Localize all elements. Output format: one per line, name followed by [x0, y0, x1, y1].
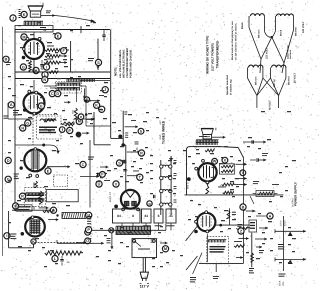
svg-text:in cabinet top: in cabinet top — [230, 79, 233, 95]
svg-text:Blk-Red: Blk-Red — [288, 76, 291, 85]
svg-text:on 110 volt lines. Wires as s: on 110 volt lines. Wires as shown. — [235, 23, 238, 60]
wire y75 bus — [15, 71, 110, 73]
resistor V7 r1 — [234, 245, 244, 248]
capacitor center — [123, 169, 126, 171]
wire y145 curve — [49, 145, 58, 152]
dashed y243 — [34, 242, 79, 244]
svg-text:.05: .05 — [66, 261, 70, 264]
osc ladder rung 2 — [163, 177, 172, 178]
arrow right y255 — [275, 258, 306, 260]
wire left stub v2 — [7, 103, 9, 119]
osc ladder rung 4 — [163, 203, 172, 204]
callout H — [33, 67, 39, 73]
callout col1 — [102, 87, 108, 93]
wire V1 top — [33, 32, 35, 39]
wire y262 stub — [215, 264, 217, 272]
tube V7 pin left — [195, 220, 198, 223]
wire arrow y152 — [127, 151, 140, 153]
wire V6 arrow1 — [236, 163, 247, 165]
arrow right y231 — [275, 230, 306, 232]
svg-text:Y: Y — [242, 171, 245, 175]
svg-text:J: J — [12, 16, 14, 20]
transformer TD legs — [270, 68, 272, 79]
capacitor C1 — [40, 64, 43, 66]
resistor R3 — [44, 61, 60, 64]
IF box text — [39, 127, 57, 129]
IFT lead bottom — [33, 206, 35, 209]
label left small — [6, 61, 11, 64]
wire V7 right — [216, 224, 250, 226]
node dot V3 — [20, 166, 23, 169]
wire y145 — [15, 144, 49, 146]
wire top bus right stub — [80, 26, 82, 33]
svg-text:240 VOLT: 240 VOLT — [302, 21, 305, 33]
callout L — [42, 72, 48, 78]
transformer TA coil — [251, 14, 265, 16]
plug — [140, 272, 148, 278]
svg-text:42: 42 — [43, 28, 47, 32]
label primary — [138, 249, 150, 250]
callout C2a — [49, 91, 55, 97]
svg-text:AVC: AVC — [72, 109, 75, 114]
svg-text:N: N — [43, 78, 46, 82]
svg-text:6K6 G: 6K6 G — [186, 182, 189, 189]
svg-text:Blk-Yel: Blk-Yel — [273, 79, 276, 87]
label stub — [213, 275, 219, 278]
label left v2 — [13, 110, 19, 111]
wire arrow down x84 — [83, 88, 85, 99]
wire V2 top — [33, 80, 35, 91]
callout bleeder — [52, 256, 58, 262]
node dot y145 — [42, 144, 45, 147]
wire right of bus — [165, 224, 167, 231]
svg-text:S: S — [118, 161, 121, 165]
svg-text:O: O — [86, 239, 89, 243]
svg-text:6SQ7: 6SQ7 — [284, 219, 287, 226]
wire y262 — [199, 263, 244, 265]
label near c184 — [104, 179, 110, 182]
wire arc to grid — [55, 16, 93, 22]
wire T2 right — [219, 146, 239, 149]
svg-text:tied back: tied back — [289, 49, 292, 59]
svg-text:C: C — [51, 92, 54, 96]
osc ladder rung 3 — [163, 190, 172, 191]
arrow FR1 — [259, 227, 268, 229]
wire T2 left — [188, 146, 196, 148]
svg-text:K: K — [95, 104, 98, 108]
callout mid y130 — [67, 127, 73, 133]
IF2 box text — [93, 112, 95, 145]
IFT comb 2 — [26, 198, 45, 200]
wire V6 arrow2 — [234, 184, 247, 186]
callout M — [21, 34, 27, 40]
svg-text:D: D — [7, 159, 10, 163]
dashed h v2 — [33, 114, 58, 116]
svg-text:Blk-Grn: Blk-Grn — [258, 29, 261, 38]
wire arrow y176 — [127, 175, 139, 177]
choke comb on bus — [67, 78, 95, 80]
label speaker vtext — [19, 9, 21, 10]
label mid — [131, 119, 136, 122]
svg-text:R: R — [21, 195, 24, 199]
node dot V7 — [194, 230, 198, 234]
wire x90 vertical — [89, 140, 91, 208]
tube V4 pin bottom — [31, 239, 36, 244]
svg-text:TRANSFORMERS: TRANSFORMERS — [216, 41, 220, 68]
coil L2 primary — [57, 82, 80, 84]
tube V6 pin top — [202, 159, 205, 162]
osc ladder rung 1 — [163, 165, 172, 166]
wire x252 vertical — [251, 233, 253, 267]
callout col3 — [99, 106, 105, 112]
value labels smudges — [47, 42, 52, 43]
callout 24 — [61, 48, 67, 54]
power transformer secondary comb — [116, 225, 151, 227]
dotted x78 — [90, 224, 92, 243]
svg-text:E: E — [57, 34, 60, 38]
callout mid2 — [125, 126, 139, 128]
callout V7a — [238, 228, 244, 234]
wire mid stub — [122, 111, 124, 145]
bits bottom — [250, 196, 254, 204]
tube V4 — [25, 217, 45, 237]
transformer TC coil — [249, 65, 263, 67]
callout star — [95, 59, 101, 65]
svg-text:8: 8 — [132, 214, 134, 218]
svg-text:A: A — [10, 103, 13, 107]
arrow y243 — [76, 242, 86, 244]
wire L2 right — [79, 85, 86, 87]
svg-text:E: E — [47, 169, 50, 173]
speaker SP1 — [28, 6, 43, 11]
label mid right — [253, 180, 259, 183]
wire V7 to x243 — [236, 227, 247, 229]
tube V3 pin b2 — [36, 175, 39, 178]
IFT box dashed — [25, 188, 46, 207]
callout V3 bl — [13, 203, 19, 209]
transformer TD cross — [263, 78, 279, 96]
label T2 — [199, 135, 207, 138]
tube V3 pin b1 — [29, 174, 32, 177]
label R values — [47, 45, 54, 48]
label pilot — [107, 237, 111, 240]
callout G2 — [25, 120, 31, 126]
wire FR top — [256, 215, 267, 217]
IFT text — [27, 195, 44, 196]
wire x125 vertical — [125, 145, 127, 192]
resistor under T2 — [205, 149, 214, 152]
node top blob — [121, 143, 125, 147]
osc ladder ticks — [174, 159, 177, 162]
resistor V3 left — [39, 191, 42, 204]
wire y126 — [86, 125, 111, 127]
svg-text:POINTS AND CHASSIS: POINTS AND CHASSIS — [130, 50, 133, 78]
power transformer core — [116, 231, 151, 235]
IFT lead top — [33, 183, 35, 188]
callout K — [21, 11, 27, 17]
callout H2 — [20, 125, 26, 131]
callout y210 — [50, 207, 56, 213]
svg-text:M: M — [78, 120, 81, 124]
block resistor — [62, 213, 86, 219]
wire R2 arrow — [60, 55, 67, 57]
svg-text:25 VOLT: 25 VOLT — [294, 73, 297, 83]
label output — [46, 10, 51, 13]
node dot V6 — [187, 177, 191, 181]
resistor in box FRm — [256, 191, 274, 197]
callout block — [86, 212, 92, 218]
svg-text:Blk-Red: Blk-Red — [295, 27, 298, 36]
speaker SP2 — [201, 129, 213, 135]
transformer TD coil — [272, 65, 286, 67]
resistor V6 r2 — [221, 170, 233, 172]
coil L2 box — [56, 82, 82, 94]
wire x283 vertical — [282, 216, 284, 271]
svg-text:R: R — [140, 151, 143, 155]
wire R1 arrow — [60, 49, 69, 51]
svg-text:115 VOLT: 115 VOLT — [266, 47, 269, 59]
text box left — [16, 205, 32, 211]
resistor mid x76 — [74, 108, 77, 119]
primary box — [132, 239, 157, 258]
svg-text:6SQ7 GT: 6SQ7 GT — [109, 191, 112, 202]
IF box dashed — [37, 116, 62, 139]
svg-text:X: X — [224, 159, 227, 163]
callout G — [20, 64, 26, 70]
svg-text:S: S — [97, 61, 100, 65]
arrow prim — [160, 242, 167, 244]
svg-text:P: P — [68, 129, 71, 133]
callout C2b — [55, 91, 61, 97]
label y160 — [262, 152, 268, 155]
wire y88 mid — [50, 87, 76, 89]
wire V3 arrow — [47, 166, 70, 168]
tube V1 pin left — [23, 48, 26, 51]
callout col2 — [94, 102, 100, 108]
svg-text:Black leads are that primary f: Black leads are that primary for use — [231, 20, 234, 60]
stub left y231 — [274, 229, 276, 233]
wire V1 down — [33, 59, 35, 72]
resistor mid y124 — [65, 123, 75, 126]
callout V3a — [80, 161, 86, 167]
svg-text:I: I — [6, 234, 7, 238]
tri y257 — [288, 260, 293, 264]
svg-text:84: 84 — [117, 214, 121, 218]
svg-text:POWER SUPPLY: POWER SUPPLY — [294, 182, 298, 206]
svg-text:K: K — [32, 240, 35, 244]
wire y195 — [185, 194, 284, 196]
resistor V6 r1 — [219, 164, 234, 174]
svg-text:HI VOLT: HI VOLT — [269, 100, 272, 110]
svg-text:U: U — [98, 182, 101, 186]
output transformer T1 winding — [24, 20, 43, 22]
callout FR1 — [267, 213, 273, 219]
IFT comb 1 — [26, 192, 45, 194]
svg-text:TUBES WIRED: TUBES WIRED — [162, 120, 166, 144]
wire y249 — [9, 247, 34, 249]
wire x207 vertical — [207, 234, 209, 262]
primary box contacts — [133, 239, 136, 242]
transformer TB coil — [277, 14, 294, 16]
callout FRm2 — [240, 204, 246, 210]
tube V1 — [24, 39, 44, 59]
callout col4 — [76, 118, 82, 124]
wire L2 left — [44, 85, 57, 87]
resistor R4 vertical — [29, 61, 32, 72]
boxed labels row — [113, 209, 141, 223]
arrow FR2 — [255, 238, 267, 240]
dashed box V7 — [207, 236, 229, 263]
callout PT2 — [86, 227, 92, 233]
oscillator coil ladder rails — [160, 160, 162, 215]
wire top bus — [15, 29, 110, 31]
svg-text:VOL: VOL — [282, 281, 285, 286]
node mid dot — [118, 135, 122, 139]
tube V1 pin top — [26, 37, 29, 40]
transformer TB legs — [275, 16, 277, 31]
transformer TC legs — [247, 68, 249, 79]
wire y210 — [12, 209, 49, 211]
wire arrows y119 — [86, 118, 94, 120]
svg-text:A: A — [269, 214, 272, 218]
callout E — [55, 33, 61, 39]
svg-text:G: G — [26, 121, 29, 125]
svg-text:e: e — [80, 115, 82, 119]
resistor long bleeder — [45, 251, 81, 255]
callout J — [10, 15, 16, 21]
svg-text:J: J — [104, 88, 106, 92]
svg-text:B: B — [5, 58, 8, 62]
tri y233 — [288, 232, 293, 236]
label diag low — [190, 277, 196, 278]
wire low left — [56, 240, 58, 243]
svg-text:NOTE:: NOTE: — [114, 67, 118, 76]
resistor y207 — [43, 210, 53, 213]
tube V4 pin top — [31, 216, 34, 219]
arrow cap y142 — [243, 141, 266, 143]
wire sp2 out — [212, 136, 226, 138]
wire left bus x15 — [14, 30, 16, 212]
svg-text:M: M — [164, 247, 167, 251]
svg-text:B: B — [242, 205, 245, 209]
resistor V6 r4 — [223, 191, 234, 194]
svg-text:W: W — [213, 160, 217, 164]
callout V3left — [5, 157, 11, 163]
resistor V3 vert — [35, 181, 38, 188]
wire arrow y102 — [64, 101, 71, 103]
svg-text:V: V — [115, 182, 118, 186]
wire speaker SP1 output — [41, 15, 55, 17]
V7 box coil — [208, 239, 226, 241]
IF box coil — [40, 119, 56, 121]
svg-text:D: D — [56, 92, 59, 96]
wire x95 vertical — [85, 99, 88, 102]
callout V6b — [222, 157, 228, 163]
svg-text:K: K — [23, 13, 26, 17]
dashed drop v2 — [32, 112, 34, 145]
svg-text:6: 6 — [158, 214, 160, 218]
svg-text:Black: Black — [241, 22, 244, 29]
callout PT1 — [87, 216, 91, 217]
tube V7 — [197, 213, 215, 231]
output transformer T2 comb — [196, 139, 218, 141]
tube V6 — [198, 163, 216, 181]
svg-text:370V: 370V — [280, 220, 283, 226]
svg-text:WIRING OF KDNEY TYPE: WIRING OF KDNEY TYPE — [206, 36, 210, 74]
resistor R2 — [45, 55, 60, 58]
arrow low left — [95, 242, 104, 244]
svg-text:250K: 250K — [279, 280, 282, 286]
svg-text:Blk-Grn: Blk-Grn — [255, 76, 258, 85]
callout c184b — [113, 181, 119, 187]
svg-text:Black: Black — [280, 29, 283, 36]
label V3a — [88, 157, 94, 158]
tube V2 — [24, 93, 45, 114]
callout small — [3, 56, 9, 62]
callout c176 — [137, 174, 143, 180]
label V4 left — [10, 234, 16, 235]
pilot branch — [111, 233, 113, 246]
wire V7 diag low — [193, 253, 202, 274]
label FRm — [272, 183, 279, 186]
svg-text:I: I — [46, 65, 47, 69]
capacitor mid — [125, 132, 128, 135]
svg-text:G: G — [22, 65, 25, 69]
arrow y261 — [236, 257, 243, 259]
label B+ — [40, 27, 46, 28]
tube V6 pin left — [195, 167, 198, 170]
wire arrow left y174 — [96, 173, 107, 175]
capacitor bleeder — [60, 259, 63, 261]
tube V5 — [121, 190, 140, 209]
svg-text:H: H — [21, 126, 24, 130]
power cord — [142, 258, 144, 273]
transformer TA legs — [248, 16, 250, 28]
tube V2 pin — [28, 90, 31, 93]
callout F2 — [38, 103, 44, 109]
tube V3 pin top — [34, 148, 37, 151]
wire x110 vertical — [110, 30, 112, 139]
arrow FR3 — [256, 246, 262, 248]
node dot V1 cathode — [22, 56, 26, 60]
svg-text:(117 VOLT POWER): (117 VOLT POWER) — [211, 43, 215, 71]
wire boxes to comb — [121, 223, 123, 226]
resistor R1 — [45, 49, 60, 52]
tube V3 — [24, 149, 46, 171]
node dot V2 — [23, 108, 27, 112]
wire x243 vertical — [243, 158, 245, 263]
callout I — [43, 64, 49, 70]
callout c164 — [116, 160, 122, 166]
pilot lamp — [109, 228, 114, 233]
svg-text:M: M — [22, 35, 25, 39]
wire R3 arrow — [60, 62, 67, 64]
label col — [99, 94, 104, 97]
callout A2 — [8, 102, 14, 108]
wire x9 vertical — [8, 211, 10, 248]
callout c184a — [96, 181, 102, 187]
plug ticks — [140, 283, 142, 285]
stub left y255 — [278, 244, 284, 245]
wire V7 left diag — [186, 227, 198, 242]
node dot V4 — [21, 232, 25, 236]
box FR — [249, 220, 257, 232]
svg-text:C: C — [82, 163, 85, 167]
output transformer T1 frame — [15, 26, 53, 33]
callout V4 left — [4, 233, 10, 239]
capacitor V7 — [227, 211, 230, 219]
callout V6c — [240, 170, 246, 176]
